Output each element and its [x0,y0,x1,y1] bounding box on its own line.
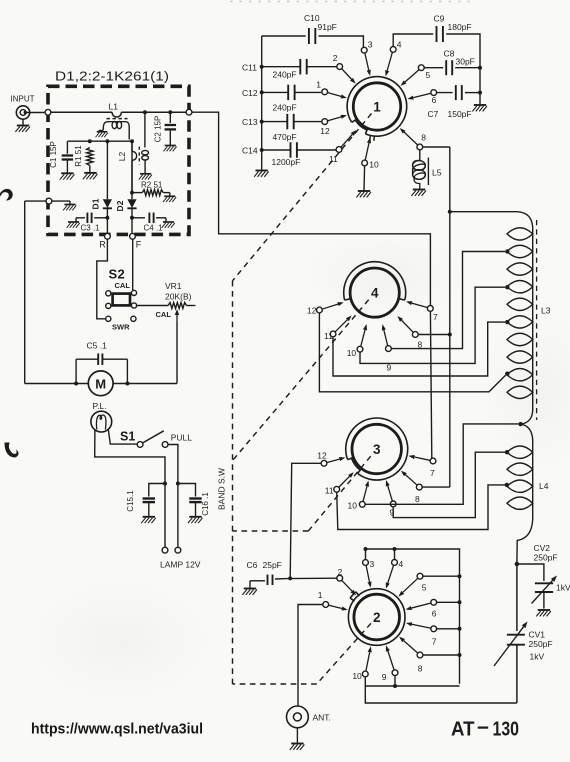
svg-text:91pF: 91pF [318,22,337,32]
svg-text:R: R [99,240,106,250]
svg-text:11: 11 [325,485,334,495]
svg-text:6: 6 [432,609,437,619]
svg-text:L3: L3 [541,306,551,316]
svg-text:3: 3 [368,40,373,50]
svg-text:CAL: CAL [156,310,172,319]
svg-text:D2: D2 [115,200,125,211]
svg-text:7: 7 [430,468,435,478]
svg-text:C11: C11 [242,63,257,73]
svg-text:10: 10 [347,348,357,358]
svg-text:C1 15P: C1 15P [49,141,58,168]
svg-text:12: 12 [317,450,327,460]
svg-text:C5 .1: C5 .1 [87,341,108,351]
svg-text:25pF: 25pF [263,560,282,570]
svg-text:VR1: VR1 [165,281,182,291]
svg-text:CV1: CV1 [529,630,546,640]
svg-text:SWR: SWR [112,323,130,332]
svg-text:C7: C7 [428,109,439,119]
svg-text:20K(B): 20K(B) [165,292,192,302]
svg-text:R2 51: R2 51 [141,181,163,190]
svg-text:BAND S.W: BAND S.W [217,468,227,510]
svg-text:5: 5 [426,70,431,80]
svg-text:D1: D1 [91,198,101,209]
svg-text:2: 2 [338,567,343,577]
svg-text:L1: L1 [109,102,119,112]
svg-text:C13: C13 [242,117,258,127]
svg-text:CV2: CV2 [534,543,551,553]
svg-text:150pF: 150pF [448,109,472,119]
svg-text:5: 5 [422,583,427,593]
svg-text:D1,2:2-1K261(1): D1,2:2-1K261(1) [55,69,169,84]
svg-text:CAL: CAL [115,281,131,290]
svg-text:C14: C14 [242,146,258,156]
svg-text:1: 1 [318,590,323,600]
svg-text:240pF: 240pF [273,70,297,80]
svg-text:R1 51: R1 51 [74,145,83,167]
svg-text:4: 4 [371,286,379,301]
svg-text:4: 4 [397,40,402,50]
svg-text:240pF: 240pF [273,102,297,112]
svg-text:ANT.: ANT. [313,713,331,723]
svg-text:250pF: 250pF [529,639,553,649]
svg-text:C3 .1: C3 .1 [81,224,101,233]
svg-text:C6: C6 [247,560,258,570]
svg-text:M: M [95,376,106,391]
svg-text:7: 7 [433,312,438,322]
svg-text:10: 10 [348,501,358,511]
svg-text:P.L.: P.L. [93,401,107,411]
svg-text:4: 4 [399,559,404,569]
svg-text:180pF: 180pF [448,22,472,32]
svg-text:L4: L4 [539,481,549,491]
svg-text:LAMP 12V: LAMP 12V [160,560,201,570]
svg-text:8: 8 [421,133,426,143]
svg-text:1: 1 [373,100,381,115]
svg-text:L2: L2 [117,152,127,162]
svg-text:130: 130 [493,718,520,740]
svg-text:250pF: 250pF [534,553,558,563]
svg-text:F: F [136,240,142,250]
svg-text:10: 10 [369,160,379,170]
svg-text:2: 2 [333,53,338,63]
svg-text:https://www.qsl.net/va3iul: https://www.qsl.net/va3iul [31,722,203,738]
svg-text:9: 9 [382,672,387,682]
svg-text:S2: S2 [109,267,126,282]
svg-text:8: 8 [418,664,423,674]
svg-text:12: 12 [320,126,330,136]
svg-text:470pF: 470pF [273,132,297,142]
svg-text:C12: C12 [242,88,258,98]
svg-text:3: 3 [370,559,375,569]
svg-text:30pF: 30pF [456,57,475,67]
svg-text:6: 6 [432,95,437,105]
svg-text:1kV: 1kV [556,583,570,593]
svg-text:INPUT: INPUT [11,95,35,104]
svg-text:10: 10 [352,671,362,681]
svg-text:L5: L5 [432,168,442,178]
svg-text:C16 .1: C16 .1 [201,492,210,516]
svg-text:1kV: 1kV [530,652,545,662]
svg-text:AT: AT [451,718,475,740]
svg-text:S1: S1 [120,430,135,444]
svg-text:C2 15P: C2 15P [154,116,163,143]
svg-text:1200pF: 1200pF [272,157,301,167]
svg-text:7: 7 [432,637,437,647]
svg-text:C15.1: C15.1 [126,490,135,512]
svg-text:PULL: PULL [171,433,193,443]
svg-text:C9: C9 [434,14,445,24]
svg-text:12: 12 [307,306,317,316]
svg-text:11: 11 [324,331,333,341]
svg-text:C8: C8 [444,49,455,59]
svg-text:C4 .1: C4 .1 [144,224,164,233]
svg-text:3: 3 [373,442,381,457]
svg-text:2: 2 [373,610,381,625]
svg-text:8: 8 [415,494,420,504]
svg-text:1: 1 [316,79,321,89]
